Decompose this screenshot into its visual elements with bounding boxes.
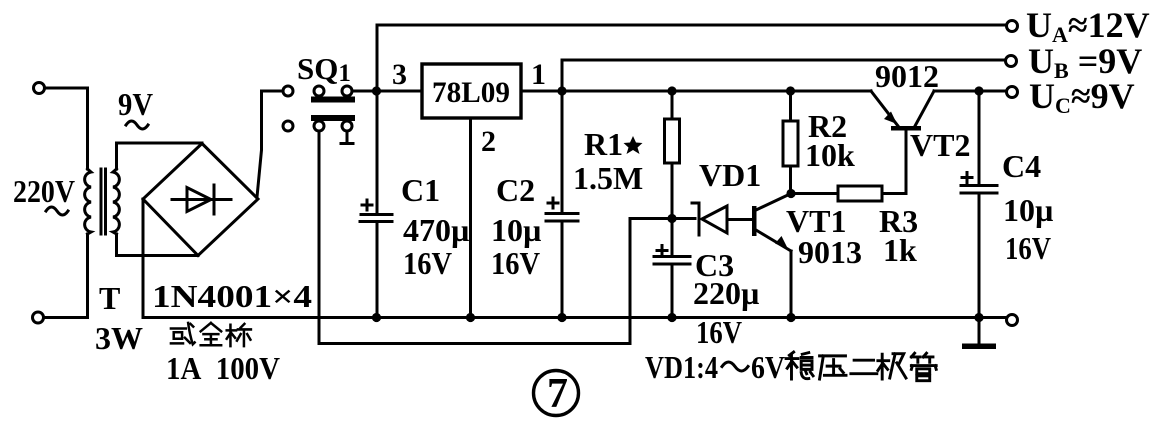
capacitor C2 [546, 91, 578, 318]
terminal U_C [1007, 87, 1018, 98]
svg-text:3W: 3W [95, 320, 143, 356]
wire [142, 199, 145, 318]
wire [257, 91, 282, 197]
wire [45, 88, 88, 169]
svg-text:VD1: VD1 [699, 157, 761, 193]
label star [624, 136, 643, 154]
bridge rectifier [143, 144, 258, 256]
junction [667, 313, 676, 322]
svg-text:220V: 220V [13, 173, 75, 209]
wire: riser to output B rail [561, 60, 564, 91]
transistor VT2 9012 [871, 91, 934, 194]
note tilde [722, 362, 748, 371]
terminal: AC input bottom [33, 312, 44, 323]
svg-text:C2: C2 [496, 172, 535, 208]
svg-text:220µ: 220µ [693, 275, 759, 311]
junction [466, 313, 475, 322]
svg-text:7: 7 [547, 371, 568, 417]
svg-text:1k: 1k [883, 232, 917, 268]
terminal U_B [1006, 56, 1017, 67]
junction [557, 86, 566, 95]
svg-text:78L09: 78L09 [432, 76, 510, 109]
resistor R2 [783, 91, 798, 194]
terminal: common output [1007, 315, 1018, 326]
svg-text:10µ: 10µ [1003, 192, 1053, 228]
svg-text:470µ: 470µ [403, 212, 469, 248]
bridge diode symbol [172, 185, 231, 214]
wire [352, 90, 422, 93]
svg-text:10µ: 10µ [491, 212, 541, 248]
terminal U_A [1007, 21, 1018, 32]
svg-text:R1: R1 [584, 126, 623, 162]
svg-text:16V: 16V [696, 314, 742, 350]
svg-text:10k: 10k [805, 137, 855, 173]
svg-text:1N4001×4: 1N4001×4 [152, 278, 312, 314]
switch SQ1 [283, 86, 355, 144]
resistor R3 [791, 186, 906, 201]
wire: collector to U_C [934, 90, 1007, 93]
wire: bottom ground bus [143, 316, 1007, 319]
svg-text:C4: C4 [1002, 148, 1041, 184]
wire [117, 143, 203, 169]
regulator 78L09 [422, 64, 521, 118]
wire: pin 2 down [469, 118, 472, 318]
capacitor C1 [360, 91, 392, 318]
junction [786, 189, 795, 198]
junction [974, 313, 983, 322]
svg-text:UC≈9V: UC≈9V [1029, 76, 1135, 118]
junction [557, 313, 566, 322]
junction [372, 313, 381, 322]
wire: output A rail [377, 24, 1007, 27]
svg-text:16V: 16V [1005, 230, 1051, 266]
junction [372, 86, 381, 95]
svg-text:16V: 16V [403, 245, 452, 281]
capacitor C4 [961, 91, 997, 318]
resistor R1 [665, 91, 680, 218]
svg-text:3: 3 [392, 58, 407, 91]
junction [974, 86, 983, 95]
transformer T secondary winding [113, 169, 119, 234]
note 稳压二极管 [786, 352, 936, 381]
svg-text:9012: 9012 [875, 58, 939, 94]
junction [667, 86, 676, 95]
figure number 7 [534, 371, 579, 418]
transformer core [101, 169, 106, 234]
wire: main 9V rail [521, 90, 871, 93]
svg-text:VD1:4: VD1:4 [645, 349, 718, 385]
wire: switch pole 2 to VD1 node [319, 131, 667, 344]
wire [117, 234, 199, 256]
label ~ (220V) [46, 207, 68, 215]
label ~ (9V) [126, 121, 148, 129]
label 或全桥 [171, 323, 251, 346]
svg-text:1A 100V: 1A 100V [166, 350, 280, 386]
capacitor C3 [654, 219, 690, 318]
svg-text:9013: 9013 [798, 234, 862, 270]
svg-text:1.5M: 1.5M [573, 160, 643, 196]
svg-text:2: 2 [481, 125, 496, 158]
transformer T primary winding [85, 169, 91, 234]
wire: riser to output A rail [376, 25, 379, 91]
svg-text:16V: 16V [491, 245, 540, 281]
zener diode VD1 [672, 203, 752, 235]
svg-text:1: 1 [531, 58, 546, 91]
svg-text:VT2: VT2 [910, 127, 970, 163]
wire [44, 234, 88, 318]
svg-text:C1: C1 [401, 172, 440, 208]
wire: output B rail [562, 59, 1006, 62]
junction [786, 86, 795, 95]
junction [667, 214, 676, 223]
svg-text:6V: 6V [751, 349, 785, 385]
junction [786, 313, 795, 322]
svg-text:T: T [99, 280, 120, 316]
svg-text:9V: 9V [118, 86, 153, 122]
terminal: AC input top [34, 83, 45, 94]
transistor VT1 9013 [752, 194, 791, 318]
ground [962, 318, 996, 350]
